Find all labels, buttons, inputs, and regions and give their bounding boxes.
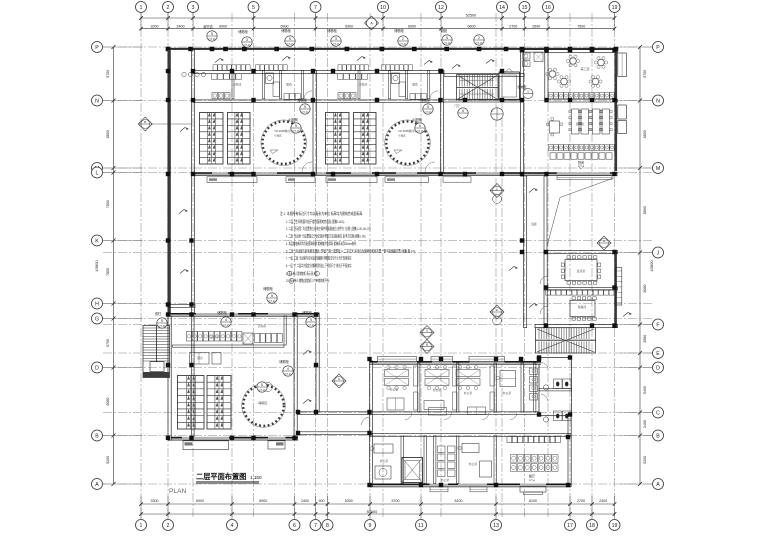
desk cluster office1 <box>385 370 409 377</box>
partition lower room 1 <box>401 436 403 484</box>
right rooms N wall <box>545 99 618 102</box>
svg-text:8080: 8080 <box>106 398 110 406</box>
svg-text:2400: 2400 <box>643 420 647 428</box>
office door arc <box>405 413 412 420</box>
grid line axis 13 vertical <box>495 13 497 519</box>
grid line axis 2 vertical <box>167 13 169 519</box>
stairwell stairs <box>457 75 499 101</box>
table grid lowerleft 2 <box>207 376 231 430</box>
right dimension line <box>639 47 641 484</box>
partition lower room 3 <box>457 436 459 484</box>
grid line axis 11 vertical <box>420 13 422 519</box>
svg-text:19: 19 <box>612 523 618 529</box>
svg-text:QT-1b: QT-1b <box>158 324 166 328</box>
classroom door arc u2 <box>425 162 435 172</box>
svg-text:QT-1b: QT-1b <box>284 372 292 376</box>
slope arrow top right <box>486 60 495 64</box>
svg-text:准备间: 准备间 <box>578 305 587 309</box>
desk cluster office2 <box>425 370 449 377</box>
shoe cabinet row unit1 <box>213 65 217 71</box>
svg-text:B: B <box>95 433 99 439</box>
svg-text:QT-1b: QT-1b <box>399 42 407 46</box>
svg-text:J: J <box>657 250 660 256</box>
svg-text:A: A <box>426 329 428 333</box>
corridor top fixtures <box>523 53 531 59</box>
dining grid big room <box>511 455 517 463</box>
small table N-M room <box>550 121 560 133</box>
play circle inner marks <box>264 383 273 392</box>
slope arrow walkway top4 <box>424 61 433 65</box>
right section M wall <box>545 172 618 175</box>
partition lower room 2 <box>434 436 436 484</box>
washroom cell row lowerleft <box>187 332 192 342</box>
svg-text:17: 17 <box>567 523 573 529</box>
svg-text:10. 表示单人储物(含帽)柜 2个单储物柜平分.: 10. 表示单人储物(含帽)柜 2个单储物柜平分. <box>286 277 330 283</box>
window below lowerleft 1 <box>183 441 229 450</box>
svg-text:6900: 6900 <box>196 499 204 503</box>
elevator shaft top <box>499 72 520 100</box>
washbasin circles below wall left <box>182 72 186 76</box>
square tables lower room2 <box>438 446 446 453</box>
flower table 2 <box>598 59 604 65</box>
svg-text:N: N <box>95 98 99 104</box>
toilet block outer <box>539 358 572 416</box>
grid line axis 12 vertical <box>440 13 442 519</box>
svg-text:1:150: 1:150 <box>250 475 262 480</box>
desk cluster office3 <box>456 370 480 377</box>
callout courtyard left <box>267 293 277 303</box>
left wing west wall <box>168 50 171 316</box>
connector door arc <box>362 417 370 425</box>
svg-text:D: D <box>656 365 660 371</box>
classroom mid wall <box>313 71 316 175</box>
svg-text:卫生间: 卫生间 <box>210 335 219 339</box>
svg-text:8800: 8800 <box>643 130 647 138</box>
office block right wall lower <box>568 416 571 487</box>
svg-text:储物柜: 储物柜 <box>279 359 289 364</box>
svg-text:19: 19 <box>612 5 618 11</box>
svg-text:QT-1b: QT-1b <box>286 42 294 46</box>
partition office 2-3 <box>457 363 459 412</box>
office block top wall <box>370 361 542 364</box>
stair unit top wall <box>444 74 524 77</box>
svg-text:7: 7 <box>314 523 317 529</box>
svg-text:5700: 5700 <box>392 499 400 503</box>
callout lowerleft mid1 <box>283 366 293 376</box>
callout crosshair <box>491 108 503 120</box>
structural columns <box>191 69 195 73</box>
svg-text:5: 5 <box>295 124 297 128</box>
svg-text:QT-1b: QT-1b <box>208 37 216 41</box>
svg-text:6: 6 <box>462 109 464 113</box>
svg-text:43800: 43800 <box>94 260 99 272</box>
grid line axis E horizontal <box>103 352 652 354</box>
lowerleft block right wall <box>294 313 297 440</box>
svg-text:6. 二层 "活动室与卧室相连通处" 预留门洞一道预留 9-: 6. 二层 "活动室与卧室相连通处" 预留门洞一道预留 9- 二平方米 其余均为… <box>286 247 416 253</box>
svg-text:5700: 5700 <box>106 70 110 78</box>
svg-text:3: 3 <box>335 37 337 41</box>
svg-text:建构室: 建构室 <box>576 122 585 126</box>
bottom dimension lines <box>141 503 615 505</box>
callout N right <box>523 89 533 99</box>
diamond A courtyard <box>332 374 346 388</box>
connector corridor top wall <box>298 412 370 415</box>
svg-text:2: 2 <box>478 36 480 40</box>
svg-text:5: 5 <box>427 105 429 109</box>
lowerleft block left wall <box>168 316 171 440</box>
grid line axis P horizontal <box>103 46 652 48</box>
svg-text:7800: 7800 <box>106 268 110 276</box>
lower room1 desk <box>374 444 393 453</box>
svg-text:14: 14 <box>499 5 505 11</box>
play circle unit2 <box>385 120 431 166</box>
svg-text:储物柜: 储物柜 <box>297 98 307 103</box>
svg-text:3. 二层 "活动室" 均设置独立分体空调并预留插座位 由甲: 3. 二层 "活动室" 均设置独立分体空调并预留插座位 由甲方 "自理" (图集… <box>286 225 371 231</box>
window band office top <box>431 357 453 362</box>
grid line axis D horizontal <box>103 367 652 369</box>
office door arc <box>482 413 489 420</box>
office corridor wall lower <box>370 434 572 437</box>
svg-text:储物柜: 储物柜 <box>302 310 312 315</box>
svg-text:2: 2 <box>167 523 170 529</box>
svg-text:QT-1b: QT-1b <box>443 41 451 45</box>
svg-text:8100: 8100 <box>529 499 537 503</box>
svg-text:8080: 8080 <box>643 285 647 293</box>
svg-text:QT-1b: QT-1b <box>416 129 424 133</box>
svg-text:A: A <box>603 239 605 243</box>
slope arrow corridor right 2 <box>529 304 538 308</box>
diamond K2 right <box>490 305 504 319</box>
svg-text:会议室: 会议室 <box>577 269 586 273</box>
window below stair unit <box>443 177 471 182</box>
slope arrow walkway top3 <box>357 57 366 61</box>
slope arrow left wing 1 <box>180 128 189 132</box>
svg-text:QT-1b: QT-1b <box>243 43 251 47</box>
right corridor west wall <box>521 50 524 176</box>
right corridor top cap <box>521 50 549 53</box>
grid line axis 15 vertical <box>524 13 526 519</box>
svg-text:XR-30dB膜(详): XR-30dB膜(详) <box>398 129 416 133</box>
office block bottom wall <box>370 484 572 487</box>
shoe cabinet row unit2b <box>382 65 386 71</box>
lowerleft block bottom wall <box>171 437 298 440</box>
svg-text:小图例: 小图例 <box>288 117 298 122</box>
J block mid wall <box>544 288 618 291</box>
svg-text:睡眠区: 睡眠区 <box>258 400 267 405</box>
top axis bubbles <box>136 2 147 13</box>
window band office top <box>378 357 417 362</box>
svg-text:H: H <box>95 301 99 307</box>
svg-text:QT-1b: QT-1b <box>332 42 340 46</box>
svg-text:午睡区: 午睡区 <box>274 134 282 138</box>
svg-text:57500: 57500 <box>367 510 378 514</box>
svg-text:PLAN: PLAN <box>169 488 186 495</box>
svg-text:10: 10 <box>380 5 386 11</box>
callout top 2 <box>242 37 252 47</box>
svg-text:注 1. 本图所有标注尺寸均以毫米为单位 标高均为建筑完成面: 注 1. 本图所有标注尺寸均以毫米为单位 标高均为建筑完成面标高. <box>280 210 363 216</box>
svg-text:5200: 5200 <box>643 456 647 464</box>
svg-text:3: 3 <box>192 5 195 11</box>
grid line axis 14 vertical <box>501 13 503 519</box>
office2 lower cab <box>424 401 444 410</box>
svg-text:连廊: 连廊 <box>531 222 537 226</box>
svg-text:QT-1b: QT-1b <box>475 41 483 45</box>
svg-text:办公室: 办公室 <box>469 462 478 466</box>
lowerleft walkway east wall <box>316 313 319 412</box>
svg-text:储物柜: 储物柜 <box>420 98 430 103</box>
svg-text:6900: 6900 <box>345 24 353 28</box>
svg-text:5: 5 <box>289 37 291 41</box>
slope arrow corridor right 1 <box>529 189 538 193</box>
diamond B left <box>138 117 152 131</box>
classroom bottom wall dark segments <box>193 172 212 174</box>
slope arrow near J <box>509 267 518 271</box>
callout lowerleft 2 <box>221 317 231 327</box>
svg-text:5: 5 <box>252 5 255 11</box>
grid line axis 7 vertical <box>315 13 317 519</box>
svg-text:储物柜: 储物柜 <box>217 310 227 315</box>
svg-text:12: 12 <box>438 5 444 11</box>
svg-text:XR-30dB膜(详): XR-30dB膜(详) <box>274 129 292 133</box>
play circle unit1 <box>261 120 307 166</box>
svg-text:900: 900 <box>319 499 325 503</box>
window below classroom u2b <box>385 177 429 183</box>
svg-text:5: 5 <box>161 319 163 323</box>
grid line axis J horizontal <box>103 252 652 254</box>
svg-text:办公室: 办公室 <box>380 459 389 463</box>
svg-text:QT-1b: QT-1b <box>292 129 300 133</box>
svg-text:QT-1b: QT-1b <box>258 388 266 392</box>
svg-text:L: L <box>96 170 99 176</box>
svg-text:127㎡: 127㎡ <box>529 478 536 482</box>
svg-text:7. 一层, 二层 "活动室内均为固定储藏柜 隔断做法与尺寸: 7. 一层, 二层 "活动室内均为固定储藏柜 隔断做法与尺寸均于现场核实. <box>286 255 352 261</box>
svg-text:6: 6 <box>419 124 421 128</box>
callout unit1 mid <box>300 104 310 114</box>
callout stair right <box>458 108 468 118</box>
window mark below room L3 <box>470 487 487 492</box>
svg-text:办公室: 办公室 <box>441 478 450 482</box>
classroom unit2 interior <box>338 93 344 99</box>
slope arrow walkway 2 <box>303 400 312 404</box>
svg-text:8100: 8100 <box>455 499 463 503</box>
svg-text:5. 本层楼电梯间均为配套精装修 楼梯踏步防滑条 楼梯间采用: 5. 本层楼电梯间均为配套精装修 楼梯踏步防滑条 楼梯间采用500mm制作. <box>286 240 357 246</box>
toilet fixtures <box>554 379 563 389</box>
classroom right wall grid12 <box>441 71 444 175</box>
slope arrow walkway 1 <box>303 351 312 355</box>
svg-text:6900: 6900 <box>281 24 289 28</box>
J block F wall <box>535 325 618 328</box>
flower table 5 <box>549 71 555 77</box>
grid line axis C horizontal <box>103 412 652 414</box>
window below lowerleft 2 <box>268 441 285 449</box>
svg-text:1: 1 <box>140 523 143 529</box>
grid line axis 1 vertical <box>140 13 142 519</box>
svg-text:双杠: 双杠 <box>155 311 162 316</box>
grid line axis 10 vertical <box>382 13 384 519</box>
bay window below big room <box>520 486 546 492</box>
cell row 2 N-M room <box>549 145 554 151</box>
svg-text:二层平面布置图: 二层平面布置图 <box>196 472 246 481</box>
svg-text:QT-1b: QT-1b <box>424 110 432 114</box>
window below M right <box>557 176 612 180</box>
svg-text:A: A <box>656 482 660 488</box>
small rooms lowerleft <box>190 353 210 365</box>
classroom unit1 interior <box>212 93 218 99</box>
partition office 4-5 <box>521 363 523 412</box>
svg-text:15: 15 <box>522 5 528 11</box>
svg-text:11: 11 <box>418 523 423 529</box>
classroom N inner wall <box>193 100 441 103</box>
svg-text:7500: 7500 <box>577 24 585 28</box>
office1 lower cab <box>387 398 404 410</box>
svg-text:F: F <box>656 322 659 328</box>
conference table 1 <box>565 260 597 281</box>
svg-text:5200: 5200 <box>106 456 110 464</box>
svg-text:2700: 2700 <box>577 499 585 503</box>
svg-text:厨房: 厨房 <box>197 356 203 360</box>
svg-text:5400: 5400 <box>643 386 647 394</box>
partition toilet west <box>534 363 536 412</box>
svg-text:E: E <box>656 351 660 357</box>
grid line axis 19 vertical <box>614 13 616 519</box>
J block door arc 1 <box>540 276 548 284</box>
svg-text:8800: 8800 <box>643 206 647 214</box>
urinal column <box>530 368 538 375</box>
grid line axis H horizontal <box>103 303 652 305</box>
bottom axis bubbles <box>136 520 147 531</box>
svg-text:储物柜: 储物柜 <box>281 28 291 33</box>
svg-text:6900: 6900 <box>259 499 267 503</box>
grid line axis A horizontal <box>103 483 652 485</box>
table grid lowerleft 1 <box>178 376 205 430</box>
left dimension line <box>113 47 115 484</box>
office door arc <box>445 413 452 420</box>
slope arrow left wing 2 <box>179 210 188 214</box>
callout top 1 <box>207 31 217 41</box>
svg-text:2400: 2400 <box>301 499 309 503</box>
grid line axis 18 vertical <box>591 13 593 519</box>
svg-text:1: 1 <box>140 5 143 11</box>
locker row J block <box>546 290 551 296</box>
shoe cabinet row unit1b <box>256 65 260 71</box>
courtyard diagonal leader <box>547 178 615 247</box>
svg-text:18: 18 <box>589 523 595 529</box>
svg-text:鞋柜: 鞋柜 <box>441 28 448 33</box>
svg-text:K: K <box>95 238 99 244</box>
partition lower big room <box>494 436 496 484</box>
svg-text:储物柜: 储物柜 <box>327 28 337 33</box>
slope arrow courtyard right <box>623 313 632 317</box>
J block left wall <box>544 251 547 328</box>
counter squares N-M room <box>550 153 556 159</box>
svg-text:4: 4 <box>231 523 234 529</box>
callout top 5 <box>398 36 408 46</box>
svg-text:5: 5 <box>310 318 312 322</box>
callout unit2 low <box>415 123 425 133</box>
classroom block left wall <box>192 50 195 174</box>
slope arrow left wing 3 <box>180 270 189 274</box>
partition office 1-2 <box>418 363 420 412</box>
svg-text:3300: 3300 <box>151 499 159 503</box>
desk office4 <box>500 371 516 387</box>
dining tables N-M room <box>572 109 580 134</box>
svg-text:2: 2 <box>402 37 404 41</box>
toilet block mid wall <box>539 389 572 391</box>
F-E stair <box>536 328 596 353</box>
grid line axis F horizontal <box>103 324 652 326</box>
window below classroom u2 <box>326 177 377 183</box>
grid line axis 5 vertical <box>253 13 255 519</box>
classroom door arc u1 <box>302 162 312 172</box>
callout lowerleft 3 <box>306 317 316 327</box>
partition x284 lowerleft <box>284 316 286 345</box>
office corridor wall upper <box>370 412 540 415</box>
grid line axis B horizontal <box>103 435 652 437</box>
lowerleft block top wall <box>168 313 320 316</box>
partition elevator east <box>424 436 426 484</box>
svg-text:P: P <box>95 45 99 51</box>
corridor M-F west wall <box>524 176 527 328</box>
callout lowerleft mid2 <box>257 382 267 392</box>
svg-text:更衣: 更衣 <box>286 83 292 87</box>
svg-text:5: 5 <box>211 32 213 36</box>
callout top 4 <box>331 36 341 46</box>
office3 lower cab <box>468 407 486 415</box>
svg-text:6: 6 <box>293 523 296 529</box>
corridor M-F east wall <box>544 176 547 253</box>
svg-text:9: 9 <box>369 523 372 529</box>
office cabinet strip <box>490 366 495 386</box>
diamond right mid <box>597 236 611 250</box>
svg-text:储物柜: 储物柜 <box>263 286 273 291</box>
svg-text:QT-1b: QT-1b <box>268 299 276 303</box>
J block right wall <box>614 251 617 328</box>
office block left wall lower <box>370 435 373 487</box>
svg-text:储物柜: 储物柜 <box>517 84 526 89</box>
conference table 2 <box>570 301 595 317</box>
office door arc <box>510 413 517 420</box>
grid line axis 3 vertical <box>192 13 194 519</box>
exterior stair lower-left <box>143 326 170 378</box>
svg-text:8. 一层 "六 二层均为固定分储藏柜相连上下双柜尺寸 做法: 8. 一层 "六 二层均为固定分储藏柜相连上下双柜尺寸 做法于平面核实. <box>286 262 352 268</box>
svg-text:1: 1 <box>527 89 529 93</box>
svg-text:6990: 6990 <box>408 24 416 28</box>
svg-text:办公室: 办公室 <box>390 388 399 392</box>
svg-text:6900: 6900 <box>219 24 227 28</box>
svg-text:厨房: 厨房 <box>578 160 584 165</box>
left axis bubbles <box>92 42 103 53</box>
top dimension lines <box>141 17 615 19</box>
grid line axis 16 vertical <box>547 13 549 519</box>
svg-text:午睡区: 午睡区 <box>398 134 406 138</box>
left wing H wall <box>168 305 195 308</box>
svg-text:7800: 7800 <box>106 200 110 208</box>
callout top 3 <box>285 36 295 46</box>
office block left wall <box>370 361 373 435</box>
grid line axis 6 vertical <box>294 13 296 519</box>
svg-text:办公室: 办公室 <box>433 388 442 392</box>
svg-text:4. 二层 "活动室" 均设置独立分体空调并预留卫生间插座位: 4. 二层 "活动室" 均设置独立分体空调并预留卫生间插座位 由甲方自理 (图集… <box>286 233 366 239</box>
svg-text:6600: 6600 <box>468 24 476 28</box>
window band office top <box>469 357 505 362</box>
svg-text:2400: 2400 <box>599 499 607 503</box>
svg-text:QT-1b: QT-1b <box>307 323 315 327</box>
play circle lowerleft <box>242 384 286 428</box>
connector corridor bottom wall <box>298 432 370 435</box>
grid line axis 8 vertical <box>327 13 329 519</box>
outer top wall P axis <box>166 48 617 50</box>
svg-text:3: 3 <box>246 38 248 42</box>
